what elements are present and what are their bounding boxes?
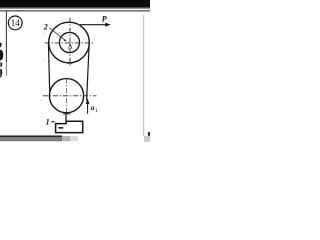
arrowhead P (105, 23, 111, 27)
bottom-right corner black mark (148, 132, 150, 136)
svg-text:14: 14 (11, 18, 21, 28)
frame top line (0, 10, 150, 11)
leader dash from 1 (51, 121, 54, 123)
leader arrowhead at center A (64, 39, 67, 42)
top scan band (0, 0, 150, 8)
pulley 1 horizontal centerline (43, 95, 97, 97)
pulley 1 vertical centerline (66, 78, 68, 113)
bottom band mid gray (62, 136, 70, 141)
acceleration arrowhead (86, 99, 90, 105)
rope to force P (80, 24, 109, 26)
badge circle 14 (8, 16, 22, 30)
pulley 2 horizontal centerline (45, 42, 95, 44)
mark inside weight box (58, 127, 63, 129)
tick at pulley 1 bottom (63, 113, 71, 115)
svg-text:A: A (68, 44, 73, 51)
leader line from 2 to center (50, 28, 66, 41)
left page-edge ink blobs (0, 43, 2, 48)
frame right line (143, 15, 145, 136)
svg-text:2: 2 (43, 22, 48, 31)
hanger rod to weight (65, 113, 67, 122)
bottom-right corner gray block (144, 136, 150, 142)
pulley 1 circle (49, 79, 83, 113)
bottom scan band dark top edge (0, 136, 62, 138)
tick at pulley 2 bottom (67, 62, 73, 64)
pulley 2 inner circle (59, 32, 79, 52)
weight box outline (56, 121, 83, 132)
belt right side (87, 43, 90, 101)
svg-text:1: 1 (95, 108, 98, 114)
acceleration arrow a1 shaft (87, 101, 89, 114)
svg-text:P: P (102, 14, 107, 23)
frame left line (5, 11, 7, 62)
svg-text:1: 1 (46, 117, 50, 126)
belt left side (48, 43, 49, 92)
faint speckles (43, 33, 44, 34)
pulley 2 outer circle (49, 22, 90, 63)
pulley 2 vertical centerline (69, 18, 71, 67)
bottom band light tail (70, 136, 78, 141)
bottom scan band body (0, 137, 62, 141)
